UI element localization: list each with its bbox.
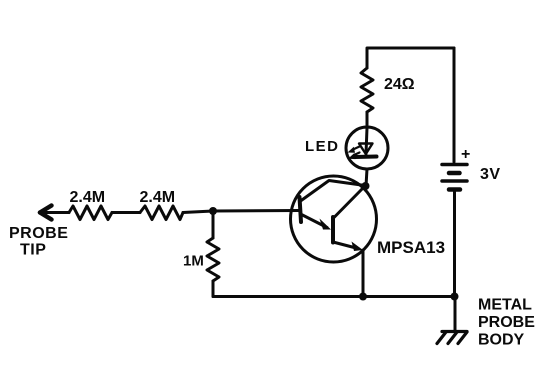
- svg-text:2.4M: 2.4M: [140, 189, 176, 206]
- wire emitter to bottom rail: [362, 250, 365, 297]
- battery B1 wire to plates: [453, 48, 456, 162]
- transistor Q1 second base bar: [331, 217, 335, 243]
- LED D1 cathode bar: [355, 155, 377, 160]
- LED D1 circle: [346, 127, 388, 169]
- battery B1 long plate 2: [442, 179, 467, 183]
- svg-text:LED: LED: [305, 138, 340, 155]
- transistor Q1 circle MPSA13: [291, 176, 377, 262]
- svg-text:TIP: TIP: [20, 242, 46, 259]
- wire resistor to LED: [366, 112, 369, 128]
- wire probe arrow: [38, 206, 69, 220]
- battery B1 wire to bottom node: [453, 192, 456, 297]
- svg-text:1M: 1M: [183, 253, 204, 270]
- svg-text:PROBE: PROBE: [478, 314, 535, 331]
- wire to chassis ground: [454, 297, 457, 332]
- wire R3 to node A: [183, 211, 213, 213]
- node collector junction: [362, 182, 370, 190]
- transistor Q1 second collector: [334, 187, 365, 218]
- wire bottom rail: [213, 295, 455, 298]
- LED D1 triangle: [359, 144, 373, 155]
- resistor R4 1M: [207, 238, 219, 281]
- svg-text:MPSA13: MPSA13: [377, 238, 445, 257]
- node A junction: [209, 207, 217, 215]
- resistor R2 2.4M: [69, 206, 112, 220]
- wire LED to collector node: [366, 169, 367, 186]
- transistor Q1 first collector: [301, 181, 366, 202]
- battery B1 long plate 1: [442, 163, 467, 167]
- wire node A to R4: [212, 211, 215, 238]
- LED D1 light arrow 1: [348, 147, 360, 153]
- transistor Q1 first base bar: [300, 197, 302, 222]
- svg-text:3V: 3V: [480, 166, 501, 183]
- node battery-rail junction: [451, 293, 459, 301]
- LED D1 wire through: [366, 128, 367, 154]
- svg-text:+: +: [461, 146, 470, 163]
- transistor Q1 first emitter with arrow: [301, 214, 332, 230]
- resistor R1 24ohm: [361, 68, 373, 112]
- svg-text:24Ω: 24Ω: [384, 76, 415, 93]
- svg-text:2.4M: 2.4M: [70, 189, 106, 206]
- battery B1 short plate 2: [449, 187, 460, 192]
- wire base from junction: [213, 209, 299, 213]
- svg-text:BODY: BODY: [478, 332, 525, 349]
- resistor R3 2.4M: [140, 206, 183, 220]
- battery B1 short plate 1: [449, 171, 460, 176]
- chassis ground symbol: [437, 332, 467, 344]
- wire R4 to bottom rail: [212, 281, 215, 297]
- node emitter-rail junction: [359, 293, 367, 301]
- transistor Q1 second emitter with arrow: [333, 242, 363, 252]
- wire between resistors: [112, 211, 140, 214]
- svg-text:PROBE: PROBE: [9, 225, 68, 242]
- LED D1 light arrow 2: [348, 153, 360, 160]
- svg-text:METAL: METAL: [478, 297, 532, 314]
- wire top rail: [367, 48, 454, 161]
